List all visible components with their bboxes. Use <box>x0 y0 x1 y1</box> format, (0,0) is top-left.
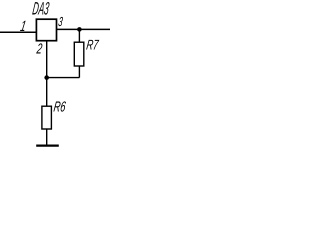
resistor R6 <box>42 106 52 129</box>
node junction dot on pin2 net <box>44 75 49 80</box>
svg-text:DA3: DA3 <box>31 0 50 18</box>
svg-text:3: 3 <box>57 14 64 29</box>
label DA3 <box>31 0 50 18</box>
wire R6 bottom lead <box>46 129 48 145</box>
svg-text:R7: R7 <box>85 37 100 53</box>
svg-text:R6: R6 <box>53 100 68 116</box>
resistor R7 <box>74 42 84 66</box>
node junction dot on output wire <box>77 27 82 32</box>
wire junction to R7 bottom <box>47 77 80 79</box>
wire from junction down to R7 <box>78 29 80 42</box>
pin number 2 <box>35 42 43 58</box>
svg-text:2: 2 <box>35 42 43 58</box>
wire R7 bottom lead <box>78 66 80 78</box>
wire junction down to R6 <box>46 78 48 107</box>
wire pin1 input <box>0 31 36 33</box>
label R7 <box>85 37 100 53</box>
label R6 <box>53 100 68 116</box>
op-amp U1 box (IC DA3) <box>36 19 56 41</box>
pin number 3 <box>57 14 64 29</box>
pin number 1 <box>19 18 27 35</box>
wire pin2 down from DA3 <box>46 41 48 78</box>
wire pin3 output to right edge <box>57 28 111 30</box>
ground terminal bar <box>36 145 59 147</box>
